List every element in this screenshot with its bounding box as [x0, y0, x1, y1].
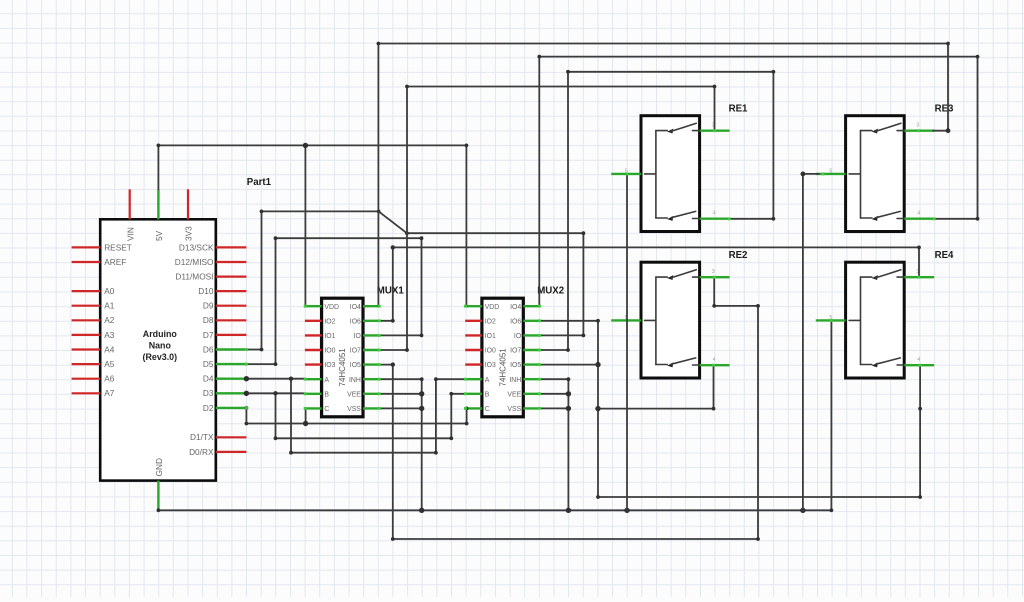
svg-text:A1: A1: [104, 301, 115, 311]
arduino U1 label: [143, 329, 178, 362]
RE3 pin B (bottom): [904, 217, 934, 219]
MUX2 pin VSS: [507, 406, 540, 413]
svg-text:D5: D5: [203, 359, 214, 369]
MUX1 pin IO2: [305, 318, 336, 325]
pin D3: [203, 388, 247, 398]
pin D9: [203, 301, 247, 311]
svg-text:3: 3: [916, 123, 919, 129]
svg-text:IO: IO: [354, 333, 362, 340]
svg-text:D12/MISO: D12/MISO: [175, 257, 214, 267]
MUX2 pin INH: [509, 377, 540, 384]
wire 5V to MUX1 VDD and MUX2 VDD: [157, 143, 469, 307]
svg-text:74HC4051: 74HC4051: [338, 348, 347, 387]
MUX2 pin IO7: [510, 348, 540, 355]
svg-text:D3: D3: [203, 388, 214, 398]
svg-text:IO6: IO6: [350, 318, 361, 325]
pin D13/SCK: [179, 242, 246, 252]
rotary encoder RE1 body: [641, 116, 700, 232]
MUX1 pin IO7: [350, 348, 380, 355]
wire D4 to MUX1 A and MUX2 A: [244, 376, 466, 455]
pin D2: [203, 403, 247, 413]
pin 3V3: [184, 189, 194, 241]
wire MUX2 IO6 to RE4 pin B with branches to MUX2 IO5 and RE2 pin B: [540, 319, 922, 499]
MUX1 pin IO: [354, 333, 380, 340]
svg-text:IO2: IO2: [324, 318, 335, 325]
pin 5V: [154, 189, 164, 241]
svg-text:5V: 5V: [154, 230, 164, 241]
wire D6 to MUX2 IO (common): [246, 210, 585, 352]
svg-text:VDD: VDD: [485, 304, 500, 311]
svg-text:RE1: RE1: [729, 104, 748, 115]
svg-text:VEE: VEE: [347, 391, 361, 398]
pin D1/TX: [190, 432, 246, 442]
MUX1 pin IO4: [350, 304, 380, 311]
pin GND: [154, 458, 164, 510]
svg-text:(Rev3.0): (Rev3.0): [143, 352, 178, 362]
svg-text:MUX2: MUX2: [537, 286, 564, 297]
svg-text:IO1: IO1: [485, 333, 496, 340]
svg-text:B: B: [324, 391, 329, 398]
pin D4: [203, 374, 247, 384]
pin D5: [203, 359, 247, 369]
RE3 switch symbol: [849, 123, 904, 221]
MUX1 pin IO1: [305, 333, 336, 340]
arduino U1 body: [100, 219, 216, 480]
connection tips: [245, 129, 936, 410]
MUX2 pin IO4: [510, 304, 540, 311]
svg-text:IO: IO: [514, 333, 522, 340]
wire MUX2 IO7 to RE1 pin B: [540, 70, 775, 352]
MUX1 pin A: [305, 377, 330, 384]
MUX2 pin VDD: [465, 304, 499, 311]
rotary encoder RE4 body: [846, 262, 905, 378]
pin A6: [72, 374, 115, 384]
wire D5 to MUX1 IO (common): [246, 236, 423, 366]
svg-text:IO7: IO7: [510, 348, 521, 355]
svg-text:A5: A5: [104, 359, 115, 369]
svg-text:VIN: VIN: [125, 227, 135, 241]
svg-text:Nano: Nano: [149, 341, 172, 351]
svg-text:D2: D2: [203, 403, 214, 413]
svg-text:INH: INH: [349, 377, 361, 384]
wire MUX1 IO4 to RE3 pin A: [377, 42, 951, 307]
MUX2 pin IO2: [465, 318, 496, 325]
svg-text:IO3: IO3: [324, 362, 335, 369]
svg-text:IO5: IO5: [350, 362, 361, 369]
wire MUX2 INH VEE VSS to ground bus: [540, 377, 571, 510]
RE2 switch symbol: [645, 270, 700, 368]
pin AREF: [72, 257, 127, 267]
pin A2: [72, 315, 115, 325]
svg-text:A2: A2: [104, 315, 115, 325]
MUX2 pin C: [465, 406, 490, 413]
svg-text:IO3: IO3: [485, 362, 496, 369]
MUX2 pin IO5: [510, 362, 540, 369]
svg-text:VSS: VSS: [347, 406, 361, 413]
pin A1: [72, 301, 115, 311]
svg-text:D0/RX: D0/RX: [189, 447, 214, 457]
pin D12/MISO: [175, 257, 247, 267]
pin D11/MOSI: [175, 272, 246, 282]
svg-text:A4: A4: [104, 344, 115, 354]
svg-text:RE4: RE4: [935, 250, 954, 261]
svg-text:3: 3: [712, 269, 715, 275]
MUX2 pin B: [465, 391, 490, 398]
svg-text:4: 4: [713, 357, 716, 363]
wire RE3 pin C to ground bus: [801, 172, 820, 511]
svg-text:IO0: IO0: [324, 348, 335, 355]
svg-text:4: 4: [713, 211, 716, 217]
MUX1 pin C: [305, 406, 330, 413]
wire MUX1 INH VEE VSS to ground bus: [380, 377, 425, 510]
pin VIN: [125, 189, 135, 241]
RE3 pin A (top): [904, 129, 934, 131]
svg-text:IO6: IO6: [510, 318, 521, 325]
pin RESET: [72, 242, 132, 252]
svg-text:INH: INH: [509, 377, 521, 384]
svg-text:RESET: RESET: [104, 242, 132, 252]
svg-text:74HC4051: 74HC4051: [499, 348, 508, 387]
svg-text:A6: A6: [104, 374, 115, 384]
MUX1 pin IO3: [305, 362, 336, 369]
svg-text:RE3: RE3: [935, 104, 954, 115]
MUX1 pin IO5: [350, 362, 380, 369]
svg-text:A7: A7: [104, 388, 115, 398]
MUX2 pin IO1: [465, 333, 496, 340]
MUX2 pin IO0: [465, 348, 496, 355]
pin A3: [72, 330, 115, 340]
pin A4: [72, 344, 115, 354]
rotary encoder RE3 body: [846, 116, 905, 232]
MUX1 pin VSS: [347, 406, 380, 413]
svg-text:VEE: VEE: [507, 391, 521, 398]
mux MUX2 body 74HC4051: [482, 298, 523, 417]
svg-text:3V3: 3V3: [184, 226, 194, 241]
svg-text:IO4: IO4: [510, 304, 521, 311]
pin D7: [203, 330, 247, 340]
RE3 pin C (common, left): [816, 173, 846, 175]
svg-text:Arduino: Arduino: [143, 329, 178, 339]
MUX2 pin IO: [514, 333, 540, 340]
svg-text:D1/TX: D1/TX: [190, 432, 214, 442]
pin A5: [72, 359, 115, 369]
svg-text:RE2: RE2: [729, 250, 748, 261]
MUX2 pin VEE: [507, 391, 540, 398]
MUX1 pin INH: [349, 377, 380, 384]
RE4 pin B (bottom): [904, 364, 934, 366]
RE2 pin A (top): [700, 276, 730, 278]
RE1 pin A (top): [700, 129, 730, 131]
svg-text:IO0: IO0: [485, 348, 496, 355]
RE4 switch symbol: [849, 270, 904, 368]
RE1 switch symbol: [645, 123, 700, 221]
wire D2 to MUX1 C and MUX2 C: [245, 406, 469, 426]
MUX1 pin IO6: [350, 318, 380, 325]
pin D8: [203, 315, 247, 325]
svg-text:D11/MOSI: D11/MOSI: [175, 272, 213, 282]
pin A7: [72, 388, 115, 398]
svg-text:D10: D10: [198, 286, 214, 296]
svg-text:D7: D7: [203, 330, 214, 340]
svg-text:D8: D8: [203, 315, 214, 325]
svg-text:IO7: IO7: [350, 348, 361, 355]
svg-text:D13/SCK: D13/SCK: [179, 242, 214, 252]
RE1 pin B (bottom): [700, 217, 730, 219]
wire ground bus GND to RE4 pin C: [157, 320, 834, 513]
svg-text:D9: D9: [203, 301, 214, 311]
wire MUX1 IO7 to RE1 pin A: [380, 85, 717, 352]
RE4 pin A (top): [904, 276, 934, 278]
svg-text:C: C: [324, 406, 329, 413]
svg-text:IO5: IO5: [510, 362, 521, 369]
svg-text:A: A: [485, 377, 490, 384]
pin D6: [203, 344, 247, 354]
svg-text:A: A: [324, 377, 329, 384]
MUX1 pin VDD: [305, 304, 339, 311]
svg-text:A0: A0: [104, 286, 115, 296]
svg-text:VDD: VDD: [324, 304, 339, 311]
rotary encoder RE2 body: [641, 262, 700, 378]
pin A0: [72, 286, 115, 296]
svg-text:MUX1: MUX1: [377, 286, 405, 297]
MUX2 pin IO6: [510, 318, 540, 325]
mux MUX1 body 74HC4051: [322, 298, 363, 417]
MUX2 pin IO3: [465, 362, 496, 369]
wire D3 to MUX1 B and MUX2 B: [244, 391, 466, 441]
svg-text:AREF: AREF: [104, 257, 126, 267]
wire MUX1 IO5 to RE2 pin A: [380, 277, 760, 541]
svg-text:IO2: IO2: [485, 318, 496, 325]
svg-text:4: 4: [917, 357, 920, 363]
RE1 pin C (common, left): [611, 173, 641, 175]
MUX2 pin A: [465, 377, 490, 384]
svg-text:Part1: Part1: [247, 177, 272, 188]
svg-text:GND: GND: [154, 458, 164, 476]
svg-text:A3: A3: [104, 330, 115, 340]
svg-text:4: 4: [917, 211, 920, 217]
svg-text:5: 5: [829, 168, 832, 174]
svg-text:C: C: [485, 406, 490, 413]
pin D0/RX: [189, 447, 246, 457]
RE4 pin C (common, left): [816, 319, 846, 321]
svg-text:IO4: IO4: [350, 304, 361, 311]
pin D10: [198, 286, 246, 296]
wire MUX1 IO6 to RE4 pin A: [380, 245, 921, 322]
MUX1 pin IO0: [305, 348, 336, 355]
MUX1 pin VEE: [347, 391, 380, 398]
MUX1 pin B: [305, 391, 330, 398]
wire MUX2 IO4 to RE3 pin B: [537, 55, 979, 307]
svg-text:B: B: [485, 391, 490, 398]
svg-text:IO1: IO1: [324, 333, 335, 340]
svg-text:VSS: VSS: [507, 406, 521, 413]
wire RE1 pin C to ground bus: [626, 174, 628, 510]
svg-text:D4: D4: [203, 374, 214, 384]
RE2 pin B (bottom): [700, 364, 730, 366]
svg-text:D6: D6: [203, 344, 214, 354]
RE2 pin C (common, left): [611, 319, 641, 321]
